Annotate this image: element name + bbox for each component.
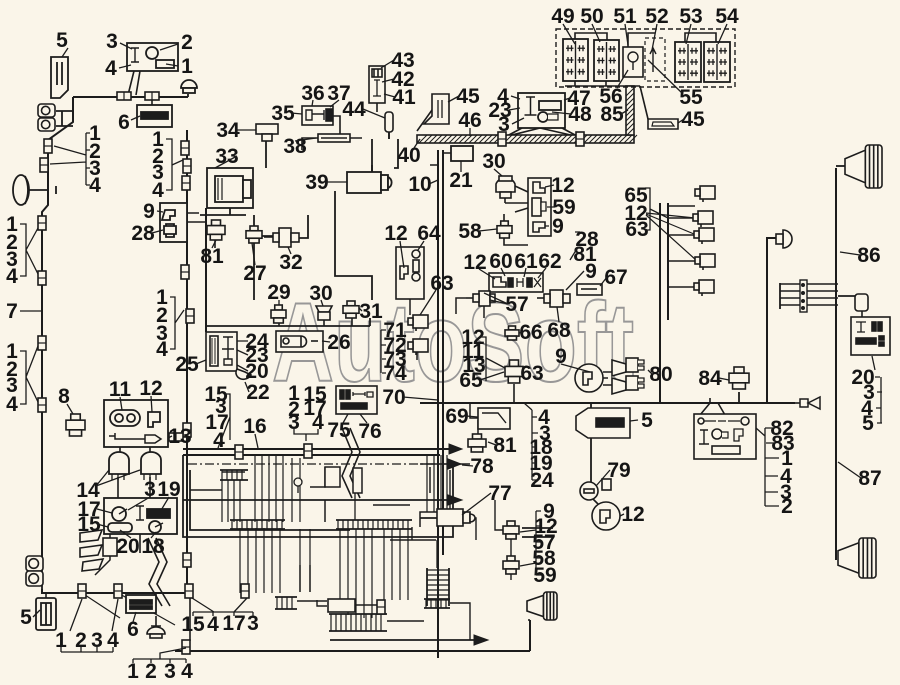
leader 3-19 bbox=[128, 497, 169, 512]
wire top-left bus bbox=[73, 96, 188, 98]
clip m5 bbox=[186, 309, 194, 323]
bracket 15-4-17-3 bbox=[192, 598, 253, 616]
box 12-60-61-62 bbox=[489, 273, 543, 292]
plug module r5 bbox=[694, 280, 714, 296]
clip bus2 bbox=[145, 92, 159, 100]
fuse block 49 bbox=[563, 39, 588, 81]
key switch 12b bbox=[592, 502, 620, 530]
sensor 81b bbox=[468, 434, 486, 452]
leader 47 bbox=[552, 98, 571, 114]
lamp right 86 bbox=[776, 230, 792, 248]
wire bot mesh bbox=[297, 565, 470, 640]
valve 57 mid bbox=[466, 291, 495, 306]
wire lamp stubs top-left bbox=[56, 111, 73, 126]
wire 6364 drop bbox=[410, 299, 417, 360]
relay 9-28 box bbox=[160, 203, 187, 242]
svg-text:63: 63 bbox=[430, 272, 453, 295]
svg-text:20: 20 bbox=[245, 360, 268, 383]
leader 81b bbox=[488, 442, 496, 445]
wire central verticals b bbox=[255, 455, 300, 522]
box 69 bbox=[478, 408, 510, 429]
horn button dome bbox=[181, 80, 197, 93]
wire flasher5 to bus bbox=[59, 90, 61, 97]
relay box bottom bbox=[328, 599, 355, 612]
marker lamps bottom-left bbox=[26, 556, 43, 571]
dome 30 mid bbox=[496, 176, 515, 198]
wire 9-28 box link bbox=[186, 213, 207, 222]
wire comp79 to key bbox=[593, 499, 598, 504]
motor 33 bbox=[207, 168, 253, 208]
wire hatch to 45flag bbox=[417, 110, 432, 131]
svg-text:3: 3 bbox=[106, 30, 118, 53]
svg-text:9: 9 bbox=[585, 260, 597, 283]
leader 11 bbox=[120, 397, 122, 410]
wire comp81b stem bbox=[477, 420, 479, 434]
plug module r1 bbox=[695, 186, 715, 202]
leader 12-64 bbox=[400, 241, 424, 268]
fuse 6 top bbox=[137, 105, 172, 127]
horn top right bbox=[845, 145, 882, 188]
bracket 1-4 left b bbox=[20, 346, 38, 404]
clip bus1 bbox=[117, 92, 131, 100]
wire zigzag fans bbox=[148, 538, 170, 606]
flag 45 left bbox=[424, 94, 449, 124]
svg-text:81: 81 bbox=[493, 434, 517, 457]
marker lamps top-left bbox=[38, 104, 55, 117]
wire 47 box fan bbox=[504, 128, 577, 137]
leader 75 bbox=[343, 414, 367, 423]
svg-text:60: 60 bbox=[489, 250, 512, 273]
wire central verticals e bbox=[384, 529, 408, 600]
wire run y215 bbox=[200, 215, 254, 226]
leader 26 bbox=[322, 341, 330, 342]
leader 56 bbox=[617, 70, 628, 88]
wire bundle right links bbox=[780, 283, 856, 309]
wire drop to clip bl5 bbox=[189, 598, 191, 641]
pin 44 bbox=[385, 112, 393, 139]
leader 5 top bbox=[62, 48, 68, 57]
svg-text:81: 81 bbox=[200, 245, 224, 268]
headlight left bbox=[13, 175, 29, 205]
wire comp30 stem bbox=[323, 319, 325, 326]
svg-text:4: 4 bbox=[6, 393, 18, 416]
leader 123-15174 bbox=[294, 400, 318, 441]
box 11-12 bbox=[104, 400, 168, 447]
dip 78 bbox=[188, 463, 448, 465]
connector right mid bbox=[855, 294, 868, 311]
wire central box outline bbox=[183, 455, 453, 537]
fuse panel dashed box bbox=[556, 29, 735, 87]
svg-text:85: 85 bbox=[600, 103, 624, 126]
wire 39 down bbox=[335, 191, 372, 300]
wire fuse mid drop bbox=[640, 86, 648, 119]
svg-text:87: 87 bbox=[858, 467, 881, 490]
leader 29 bbox=[279, 300, 362, 311]
svg-text:38: 38 bbox=[283, 135, 307, 158]
svg-text:5: 5 bbox=[862, 412, 874, 435]
comb bundle d bbox=[275, 597, 297, 609]
wire trunk upper drop bbox=[48, 97, 73, 194]
fuse block 54 bbox=[704, 42, 730, 82]
svg-text:12: 12 bbox=[463, 251, 486, 274]
box 17-15 bbox=[104, 498, 177, 534]
clip bl4 bbox=[241, 584, 249, 598]
svg-text:27: 27 bbox=[243, 262, 266, 285]
svg-text:41: 41 bbox=[392, 86, 416, 109]
leader 25 bbox=[196, 360, 206, 364]
svg-text:12: 12 bbox=[551, 174, 574, 197]
plug module m2 bbox=[408, 339, 428, 355]
svg-text:44: 44 bbox=[342, 98, 366, 121]
leader 63m bbox=[420, 290, 436, 315]
svg-text:5: 5 bbox=[20, 606, 32, 629]
strip 67 bbox=[577, 284, 602, 295]
svg-text:39: 39 bbox=[305, 171, 328, 194]
wire horn stub bbox=[836, 165, 845, 167]
leader 44 bbox=[363, 109, 385, 118]
clip hatch1 bbox=[498, 132, 506, 146]
svg-text:40: 40 bbox=[397, 144, 420, 167]
svg-text:12: 12 bbox=[384, 222, 407, 245]
bar 38 bbox=[318, 134, 350, 142]
wire 38 bar link bbox=[302, 116, 362, 150]
bracket 1-4 left a bbox=[20, 224, 38, 276]
bracket 1-4 bl bbox=[61, 599, 118, 652]
leader 57m bbox=[484, 293, 508, 304]
svg-text:31: 31 bbox=[359, 300, 383, 323]
box 12-64 bbox=[396, 247, 424, 299]
wire mid vertical 187 bbox=[186, 130, 188, 593]
wire central inner1 bbox=[190, 470, 350, 530]
comb bundle a bbox=[220, 470, 248, 480]
sensor 63 mid bbox=[505, 360, 523, 383]
svg-text:76: 76 bbox=[358, 420, 381, 443]
plugs 80 bbox=[612, 358, 644, 394]
clip bl3 bbox=[185, 584, 193, 598]
svg-text:9: 9 bbox=[143, 200, 155, 223]
svg-text:20: 20 bbox=[116, 535, 139, 558]
fuse 6 bottom bbox=[126, 595, 156, 613]
bracket 12-11-13-65 bbox=[480, 337, 505, 381]
plug module r4 bbox=[695, 254, 715, 270]
clip bl6 bbox=[235, 445, 243, 459]
svg-text:77: 77 bbox=[488, 482, 511, 505]
svg-text:65: 65 bbox=[459, 369, 483, 392]
wire central bus1 bbox=[183, 448, 452, 450]
bracket 1-4 left top bbox=[50, 133, 90, 185]
valve 68 bbox=[537, 290, 570, 307]
svg-text:80: 80 bbox=[649, 363, 672, 386]
leader 81L bbox=[212, 240, 216, 248]
svg-text:4: 4 bbox=[207, 613, 219, 636]
clip L6 bbox=[38, 398, 46, 412]
wire box20 link bbox=[861, 310, 863, 318]
leader 80 bbox=[648, 370, 652, 374]
wire comp5b stem bbox=[45, 593, 47, 599]
leader 58m bbox=[479, 229, 497, 231]
leader 9-28L bbox=[152, 211, 163, 233]
leader 43 bbox=[381, 60, 395, 97]
svg-text:21: 21 bbox=[449, 169, 473, 192]
wire canister63 drop bbox=[513, 384, 515, 403]
svg-text:1: 1 bbox=[181, 55, 193, 78]
leader 55 bbox=[648, 60, 682, 93]
bracket 9-12-57-58-59 bbox=[520, 511, 541, 575]
fan blades bbox=[80, 530, 117, 571]
leader 4-23-3 bbox=[509, 96, 524, 124]
kit 75-76 box bbox=[336, 386, 377, 414]
wire box17-15 to bus bbox=[95, 534, 110, 575]
valve 32 bbox=[264, 228, 299, 247]
sensor 84 bbox=[729, 367, 749, 389]
svg-text:68: 68 bbox=[547, 319, 571, 342]
wire right trunk 836 bbox=[835, 168, 837, 560]
svg-text:78: 78 bbox=[470, 455, 494, 478]
svg-text:64: 64 bbox=[417, 222, 441, 245]
leader 45R bbox=[678, 119, 684, 123]
leader 63b bbox=[522, 371, 524, 373]
wire comp81 drop bbox=[214, 240, 216, 248]
clip 13 bbox=[169, 433, 183, 441]
wire left trunk bbox=[42, 194, 48, 560]
leader 12key bbox=[620, 514, 624, 516]
comb bundle c bbox=[336, 520, 412, 529]
wire 80 links bbox=[603, 372, 612, 385]
plug module m1 bbox=[408, 315, 428, 331]
wire box15 bottom bbox=[139, 534, 141, 553]
clip m6 bbox=[183, 423, 191, 437]
wire 40 zone bbox=[394, 139, 398, 168]
clip bl1 bbox=[78, 584, 86, 598]
leader 35 bbox=[291, 113, 302, 114]
leader 6 top bbox=[131, 116, 140, 120]
svg-text:8: 8 bbox=[58, 385, 70, 408]
wire central verticals c bbox=[240, 528, 310, 593]
wire headlight stub bbox=[29, 186, 56, 194]
leader 77 bbox=[462, 493, 491, 515]
relay 39 bbox=[347, 165, 392, 193]
leader 34 bbox=[215, 130, 256, 168]
wire box11 drop bbox=[120, 447, 150, 455]
clip L3 bbox=[38, 216, 46, 230]
wire rail y326 bbox=[206, 318, 370, 326]
wire comp31 link bbox=[351, 317, 353, 326]
svg-text:22: 22 bbox=[246, 381, 269, 404]
wire bl bus bbox=[42, 589, 190, 593]
wire right stack bus bbox=[660, 203, 668, 403]
leader 79 bbox=[596, 470, 610, 486]
svg-text:57: 57 bbox=[505, 293, 528, 316]
leader 15-3-17-4b bbox=[216, 394, 230, 448]
relay 47-48 box bbox=[518, 93, 565, 128]
clip m1 bbox=[181, 141, 189, 155]
sensor 57b bbox=[503, 521, 519, 539]
leader 5 bl bbox=[33, 610, 40, 617]
leader 87 bbox=[838, 462, 861, 478]
comb bundle b bbox=[230, 520, 285, 529]
leader 28-81-9 bbox=[566, 232, 607, 290]
wire right bus y403 bbox=[420, 402, 795, 404]
leader 86 bbox=[840, 252, 860, 255]
sensor 66 bbox=[505, 326, 519, 340]
hatched bus vertical bbox=[626, 86, 634, 135]
plug module r2 bbox=[693, 211, 713, 227]
leader 69b bbox=[466, 416, 478, 417]
box 21 bbox=[451, 146, 473, 161]
sensor 31 bbox=[343, 301, 359, 318]
cyl 26 box bbox=[276, 331, 323, 352]
comb bundle g bbox=[427, 568, 449, 606]
clip m2 bbox=[183, 159, 191, 173]
comb bundle f bbox=[424, 599, 450, 608]
fuse block 53 bbox=[675, 42, 701, 82]
leader 21 bbox=[460, 161, 462, 172]
leader 70 bbox=[403, 397, 438, 400]
svg-text:18: 18 bbox=[141, 535, 165, 558]
leader 5R bbox=[630, 420, 638, 421]
svg-text:45: 45 bbox=[681, 108, 705, 131]
box 25 bbox=[206, 332, 237, 371]
sensor 8 bbox=[66, 414, 85, 436]
bolt central bbox=[294, 478, 302, 493]
wire bottom arrow line bbox=[330, 639, 480, 641]
leader 2 top bbox=[160, 44, 178, 50]
leader 12 bbox=[151, 396, 152, 412]
wire b-left clip line bbox=[82, 593, 175, 625]
svg-text:12: 12 bbox=[621, 503, 644, 526]
leader 38 bbox=[295, 138, 316, 141]
bracket 20345 bbox=[872, 356, 882, 423]
wire comp41 drop bbox=[376, 103, 378, 112]
arrow y464 bbox=[448, 459, 461, 469]
flasher 79 bbox=[580, 479, 611, 500]
wire comp29 stem bbox=[278, 322, 280, 326]
wire double vertical main bbox=[438, 150, 443, 658]
svg-text:32: 32 bbox=[279, 251, 302, 274]
wire box33 drop bbox=[229, 208, 231, 215]
clip L5 bbox=[38, 336, 46, 350]
svg-text:5: 5 bbox=[641, 409, 653, 432]
wire arrow line y500 bbox=[183, 499, 450, 501]
wire relays14 drops bbox=[118, 477, 150, 498]
svg-text:48: 48 bbox=[568, 103, 592, 126]
relays 14 bbox=[109, 452, 161, 480]
wire comp39 top bbox=[371, 139, 373, 172]
svg-text:26: 26 bbox=[327, 331, 350, 354]
svg-text:86: 86 bbox=[857, 244, 880, 267]
clip hatch2 bbox=[576, 132, 584, 146]
wire valve57 links bbox=[456, 298, 484, 318]
wire stack diagonals bbox=[646, 213, 696, 260]
leader 9b bbox=[561, 364, 590, 372]
inner dashed box 52 bbox=[645, 38, 665, 81]
bracket 1-4 col2 top bbox=[166, 139, 183, 190]
svg-text:25: 25 bbox=[175, 353, 199, 376]
leader 85 bbox=[621, 110, 628, 114]
bracket 12-59-9 box bbox=[528, 178, 551, 236]
svg-text:2: 2 bbox=[781, 495, 793, 518]
flasher 5 top-left bbox=[51, 57, 68, 98]
leader 27L bbox=[252, 243, 255, 265]
wire zigzag center bbox=[342, 428, 360, 498]
clip bl5 bbox=[182, 640, 190, 654]
svg-text:4: 4 bbox=[6, 265, 18, 288]
leader 13 bbox=[168, 436, 172, 438]
wire comp21 link bbox=[430, 153, 451, 165]
leader 46 bbox=[469, 128, 471, 136]
svg-text:84: 84 bbox=[698, 367, 722, 390]
leader 39 bbox=[326, 181, 347, 183]
relay central b bbox=[353, 468, 362, 493]
switch 36-37 box bbox=[302, 106, 333, 125]
wire mid vertical 205 bbox=[205, 208, 207, 332]
svg-text:70: 70 bbox=[382, 386, 405, 409]
wire comp27 stem bbox=[253, 242, 255, 300]
leader 10 bbox=[429, 180, 438, 184]
svg-text:7: 7 bbox=[6, 300, 18, 323]
leader 17b bbox=[97, 509, 112, 527]
svg-text:4: 4 bbox=[89, 174, 101, 197]
leader 78 bbox=[462, 465, 473, 466]
bracket 1-2-3-4 mid bbox=[170, 297, 184, 349]
leader 71-74 bbox=[381, 330, 386, 373]
svg-text:6: 6 bbox=[118, 111, 130, 134]
plug module r3 bbox=[694, 228, 714, 244]
wire comp78 dashdot bbox=[420, 463, 470, 465]
clip bl7 bbox=[304, 444, 312, 458]
clip bl8 bbox=[377, 600, 385, 614]
svg-text:58: 58 bbox=[458, 220, 482, 243]
sensor 81 left bbox=[207, 220, 225, 240]
leader 12-59-9 bbox=[545, 185, 555, 226]
flasher 5 bottom bbox=[36, 598, 56, 630]
svg-text:10: 10 bbox=[408, 173, 431, 196]
leader 6 bl bbox=[133, 612, 136, 622]
horn 5 right bbox=[576, 408, 630, 438]
wire central verticals a bbox=[222, 455, 447, 522]
comb bundle right bbox=[522, 528, 553, 537]
leader 14 bbox=[96, 470, 140, 486]
wire end funnel bbox=[795, 402, 800, 404]
leader 3 top bbox=[120, 43, 132, 49]
kit box 20-3-4-5 bbox=[851, 317, 890, 355]
svg-text:28: 28 bbox=[131, 222, 155, 245]
sensor 58 bbox=[497, 221, 512, 238]
leader 36 bbox=[312, 100, 339, 107]
wire horn5 drop bbox=[590, 403, 592, 485]
plafond lamp bbox=[147, 616, 165, 638]
svg-text:62: 62 bbox=[538, 250, 561, 273]
wire central bus2 bbox=[183, 454, 440, 456]
svg-text:4: 4 bbox=[156, 338, 168, 361]
bracket 1234 b2 bbox=[133, 648, 186, 663]
cylinder 77 bbox=[437, 509, 475, 526]
clip m4 bbox=[181, 265, 189, 279]
wire right mesh bbox=[373, 470, 476, 540]
svg-text:55: 55 bbox=[679, 86, 703, 109]
svg-text:15: 15 bbox=[181, 613, 205, 636]
svg-text:5: 5 bbox=[56, 29, 68, 52]
leader 8 bbox=[67, 404, 73, 414]
wire central mesh h bbox=[190, 467, 437, 527]
bracket 4-3-18-19-24 bbox=[524, 403, 538, 480]
svg-text:4: 4 bbox=[105, 57, 117, 80]
svg-text:2: 2 bbox=[145, 660, 157, 683]
wire lamp776 drop bbox=[767, 238, 776, 403]
funnel end bbox=[800, 397, 820, 409]
wire fuse top jumpers bbox=[575, 33, 716, 47]
fuse 41-43 bbox=[369, 66, 385, 103]
